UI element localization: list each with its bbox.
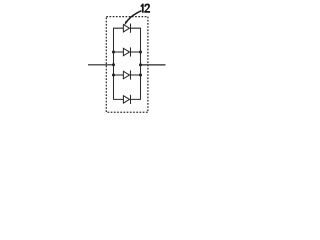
- label 12: [141, 4, 150, 13]
- wire: left input line: [88, 64, 114, 66]
- junction: left rail / input tap: [112, 63, 115, 66]
- diode D4: [123, 95, 130, 104]
- digit 1 of label 12: [141, 4, 144, 13]
- junction: right rail / D2 cathode: [139, 51, 142, 54]
- wire: right output line: [141, 64, 166, 66]
- junction: right rail / output tap: [139, 63, 142, 66]
- leader arrow to assembly 12: [125, 11, 142, 26]
- digit 2 of label 12: [144, 4, 150, 13]
- junction: right rail / D3 cathode: [139, 74, 142, 77]
- diode D2: [114, 47, 141, 56]
- diode D1: [123, 24, 130, 33]
- wire: left rail: [114, 28, 124, 99]
- dashed enclosure box (assembly 12): [106, 17, 148, 113]
- junction: left rail / D3 anode: [112, 74, 115, 77]
- diode D3: [114, 70, 141, 79]
- wire: right rail: [130, 28, 140, 99]
- junction: left rail / D2 anode: [112, 51, 115, 54]
